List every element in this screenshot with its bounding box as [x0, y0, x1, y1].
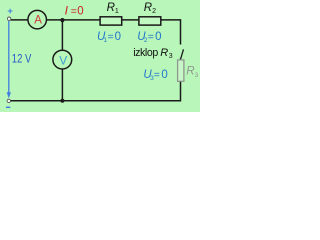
voltage arrow (source U, blue) [8, 21, 10, 93]
switch S (open blade) [181, 49, 184, 58]
source terminal + (top left) [7, 17, 10, 20]
svg-text:12 V: 12 V [12, 53, 32, 66]
wire: voltmeter bottom branch [61, 69, 63, 100]
wire: R3 to bottom-right corner [11, 82, 181, 101]
resistor R2 body [139, 17, 161, 25]
wire: R2 to top-right corner and down to switch [161, 20, 180, 45]
svg-text:izklopR3: izklopR3 [133, 47, 173, 60]
source terminal - (bottom left) [7, 99, 10, 102]
svg-text:U2=0: U2=0 [137, 31, 161, 44]
node: junction bottom (voltmeter return) [60, 99, 64, 103]
svg-text:I=0: I=0 [65, 4, 84, 18]
wire: R1 to R2 [122, 19, 139, 21]
ammeter A1 circle [28, 10, 47, 29]
svg-text:A: A [34, 14, 42, 26]
wire: top terminal to ammeter [11, 19, 28, 21]
resistor R1 body [100, 17, 122, 25]
wire: ammeter to resistor R1 [46, 19, 100, 21]
voltmeter V1 circle [53, 50, 72, 69]
svg-text:U3=0: U3=0 [143, 69, 167, 82]
minus sign [6, 107, 10, 108]
svg-text:+: + [7, 6, 13, 17]
svg-text:U1=0: U1=0 [97, 31, 121, 44]
wire: voltmeter top branch [61, 20, 63, 50]
resistor R3 (grayed, switched off) [180, 58, 182, 60]
svg-text:V: V [59, 54, 67, 68]
node: junction top (voltmeter tap) [60, 18, 64, 22]
